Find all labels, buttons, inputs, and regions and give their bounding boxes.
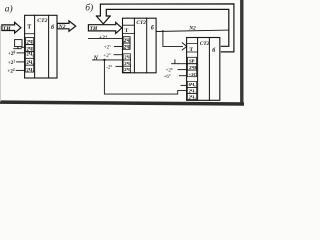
DD3 left field cell 4 [187,81,196,87]
T cell borders (DD2) [123,25,135,33]
preset bus wire N [93,59,123,61]
input wire +2^1 (diagram a) [17,61,25,63]
wire ground to DD3 [178,63,186,65]
svg-text:2Ч₂: 2Ч₂ [124,61,132,66]
input wire lower (DD3) [180,75,187,77]
DD1 right field divider [48,15,50,78]
output wide arrow N (diagram a) [57,21,75,31]
svg-text:N2: N2 [58,24,66,30]
DD2 right field divider [146,18,148,73]
wide arrow TI (diagram b) [88,22,122,33]
svg-text:ТИ: ТИ [90,26,98,32]
DD3 right field divider [208,38,210,101]
T cell bottom border (diagram a) [25,33,35,35]
input wire +2^2 (diagram a) [16,69,25,71]
svg-text:SР: SР [189,59,195,64]
wide arrow TI (diagram a) [2,22,21,33]
DD2 left field cell 4 [123,60,130,66]
DD1 left field cell 2 [26,45,34,52]
DD1 left field cell 3 [26,51,34,58]
DD1 left field cell 4 [26,58,34,65]
feedback wire outer (from Q2 up over the top) [100,4,234,52]
counter box DD2 (diagram b first counter) [123,18,157,73]
svg-text:2Ч₂: 2Ч₂ [189,88,197,93]
DD3 left field cell 5 [187,87,196,93]
DD3 left field cell 2 [187,64,196,70]
svg-text:2Ч₂: 2Ч₂ [26,61,34,66]
open clock arrowhead into DD3 [182,43,187,50]
svg-text:+21: +21 [8,60,16,67]
svg-text:2Ч₁: 2Ч₁ [124,55,132,60]
svg-text:+24: +24 [99,34,108,41]
input wire row2 (diagram b) [115,46,123,48]
ground symbol under square [14,47,22,49]
svg-text:б: б [51,24,55,31]
svg-text:ТИ: ТИ [3,26,11,32]
svg-text:СТ2: СТ2 [136,20,146,26]
svg-text:+20: +20 [103,52,110,59]
border frame left [0,26,2,101]
input wire +2^0 (diagram a) [17,52,25,54]
svg-text:N: N [93,55,99,61]
ground symbol near DD3 [172,60,179,64]
DD1 left field cell 1 [26,38,34,45]
DD3 left field cell SP [187,57,196,63]
svg-text:2Ч₃: 2Ч₃ [124,67,132,72]
svg-text:б: б [212,47,216,54]
zero-level square symbol (diagram a) [15,40,22,47]
DD2 left field cell 3 [123,54,130,60]
svg-text:а): а) [5,4,13,15]
svg-text:2Ч₃: 2Ч₃ [189,94,197,99]
border frame right [240,0,243,106]
svg-text:2Ч₁: 2Ч₁ [26,53,34,58]
DD2 left field cell 5 [123,66,130,72]
junction node on N bus [103,59,105,61]
N bus branch down and right to DD3 [104,60,186,94]
DD1 left field divider [34,15,36,78]
DD3 left field divider [197,38,199,101]
svg-text:6Ч₁: 6Ч₁ [189,82,197,87]
DD3 left field cell 6 [187,93,196,99]
wire Q of DD2 to feedback vertical [156,30,229,31]
svg-text:+20: +20 [8,51,16,58]
svg-text:+25: +25 [104,44,111,51]
input wire row1 (diagram b) [88,37,122,39]
svg-text:+62: +62 [164,73,171,80]
DD2 left field cell 2 [123,43,130,49]
DD2 left field cell 1 [123,37,130,43]
feedback wire inner [106,9,229,46]
svg-text:-26: -26 [106,64,112,71]
svg-text:СТ2: СТ2 [200,41,210,47]
DD2 left field divider [133,18,135,73]
svg-text:2Ч: 2Ч [124,45,130,50]
counter box DD1 (diagram a) [25,15,57,78]
svg-text:СТ2: СТ2 [37,18,47,24]
input wire row3 (diagram b) [114,54,123,56]
svg-text:N2: N2 [188,26,196,32]
svg-text:+22: +22 [7,68,15,75]
svg-text:б): б) [85,3,93,14]
wire square to box [21,46,24,48]
hollow feedback arrowhead down [96,16,110,24]
svg-text:2Ч6: 2Ч6 [189,65,198,70]
svg-text:+2С: +2С [189,72,197,77]
counter box DD3 (diagram b second counter) [187,38,220,101]
border frame bottom [0,100,244,105]
svg-text:2Ч₃: 2Ч₃ [26,69,34,74]
DD3 left field cell 3 [187,70,196,77]
wire Q of DD2 down to clock of DD3 [163,30,183,46]
svg-text:б: б [151,24,155,31]
input dash near bottom (DD3) [181,84,187,86]
input wire row5 (diagram b) [116,65,123,67]
svg-text:Т: Т [27,25,31,31]
T cell borders (DD3) [187,43,198,52]
DD1 left field cell 5 [26,65,34,72]
input wire +2^ (DD3) [178,69,187,71]
